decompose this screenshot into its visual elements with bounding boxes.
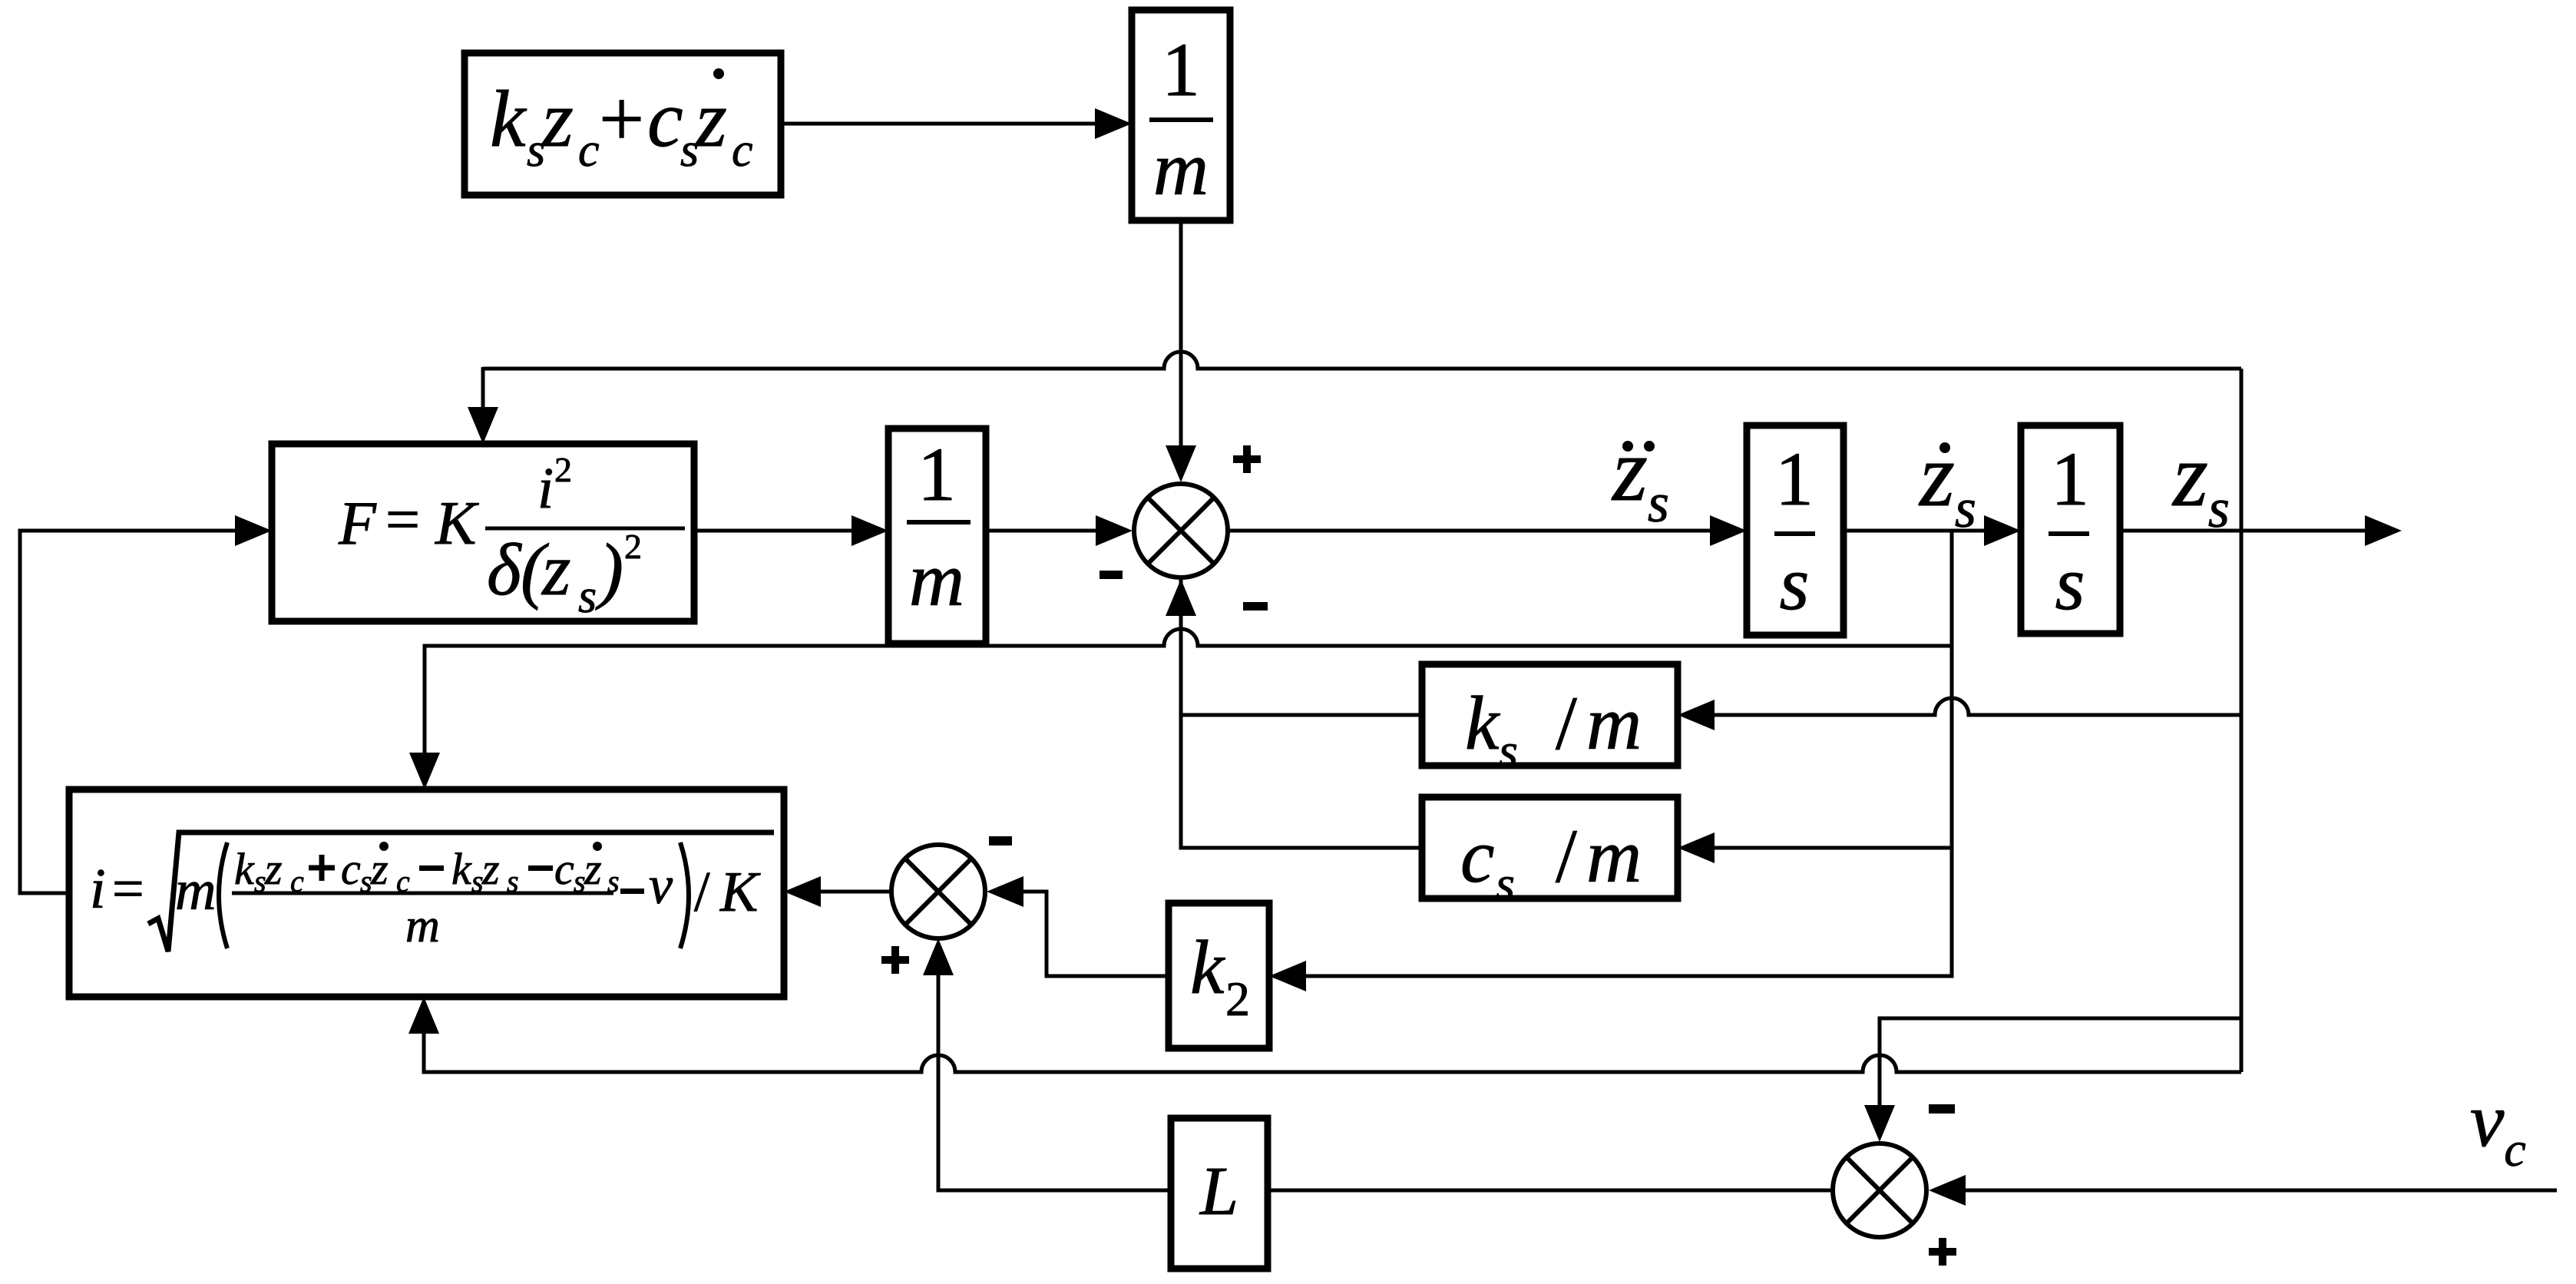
svg-text:s: s [1780, 541, 1810, 626]
wire: L output left then up into J2 bottom [923, 938, 1171, 1190]
svg-text:k: k [234, 844, 255, 894]
svg-text:=: = [112, 858, 144, 921]
wire: cs/m feed from zdot_s vertical [1678, 832, 1952, 863]
svg-text:c: c [647, 74, 683, 164]
svg-text:1: 1 [1162, 27, 1200, 112]
svg-text:2: 2 [1225, 971, 1250, 1026]
wire: z_s vertical x=2919 from top feedback down to y=1396 [2240, 369, 2244, 1072]
svg-text:m: m [175, 859, 216, 922]
svg-text:z: z [541, 74, 574, 164]
wire: z_s output line with end arrow [2120, 515, 2402, 546]
svg-text:v: v [649, 856, 673, 915]
node label: z_s (position) [2171, 425, 2230, 539]
node: J1 minus right [1243, 602, 1268, 611]
wire: k2 output left, up, into J2 right [987, 876, 1169, 976]
block B5: 1/s (first integrator) [1747, 425, 1844, 635]
node: J1 plus sign [1233, 445, 1261, 473]
svg-text:z: z [694, 74, 727, 164]
wire: i feedback: sqrt box left edge up and into F box input [20, 515, 272, 893]
svg-text:L: L [1199, 1153, 1238, 1229]
svg-text:): ) [595, 528, 623, 611]
svg-text:c: c [1460, 813, 1494, 898]
wire: branch y=1326 from z_s vertical to x=2448 then down into J3 top [1864, 1018, 2241, 1142]
summing junction J3 [1833, 1143, 1926, 1237]
block B3: F = K i^2 / delta(z_s)^2 [272, 444, 694, 623]
svg-text:c: c [554, 844, 574, 894]
wire: zdot_s horizontal y=841 from x=553 to x=2542 (hop at 1538), down into sqrt box top [409, 629, 1952, 789]
svg-text:m: m [1586, 680, 1642, 766]
node: J2 plus bottom [881, 946, 909, 974]
svg-text:c: c [732, 124, 753, 177]
svg-text:s: s [578, 571, 597, 623]
svg-text:zs: zs [1918, 425, 1976, 539]
wire: 1/m block down to summing junction J1 top [1166, 220, 1196, 482]
svg-text:K: K [435, 490, 479, 558]
block B6: 1/s (second integrator) [2021, 425, 2120, 634]
svg-text:z: z [264, 844, 283, 894]
svg-text:z: z [541, 528, 570, 611]
svg-text:z: z [584, 844, 602, 894]
svg-text:1: 1 [1775, 436, 1814, 521]
svg-text:k: k [1190, 925, 1225, 1010]
wire: J2 output into sqrt box right edge [784, 876, 890, 907]
svg-text:1: 1 [2051, 436, 2089, 521]
svg-text:c: c [341, 844, 361, 894]
block B2: 1/m (top) [1132, 10, 1230, 220]
wire: 1/s B5 to 1/s B6 (tee at x=2542) [1844, 515, 2021, 546]
node label: zdot_s (velocity) [1918, 425, 1976, 539]
wire: J1 bottom vertical down to cs/m output row, corner to cs/m box left [1166, 579, 1422, 848]
svg-text:z: z [370, 844, 389, 894]
svg-text:/: / [1556, 680, 1577, 766]
block B8: cs/m gain [1422, 797, 1678, 911]
svg-text:s: s [1496, 856, 1515, 911]
block B10: k2 gain [1169, 903, 1269, 1048]
summing junction J1 [1134, 484, 1228, 577]
wire: zdot_s vertical from main line down, then left into k2 box [1269, 531, 1952, 991]
wire: top feedback line y=480 from x=629 to z_s vertical x=2919 (hop at 1538) [483, 352, 2241, 369]
wire: v_c input from right into J3 [1929, 1175, 2557, 1206]
node label: zddot_s (acceleration) [1611, 419, 1669, 534]
svg-text:K: K [719, 861, 761, 924]
wire: z_s feed to ks/m box (from x=2919, hop at 2542) [1678, 698, 2241, 730]
svg-text:zs: zs [2171, 425, 2230, 539]
wire: ks/m output to J1 bottom vertical [1181, 713, 1422, 717]
wire: 1/m block B4 to junction J1 left [986, 515, 1133, 546]
svg-text:/: / [694, 861, 710, 924]
node: J2 minus top [989, 836, 1012, 846]
svg-text:vc: vc [2470, 1077, 2526, 1176]
block B4: 1/m [888, 429, 986, 644]
svg-text:k: k [451, 844, 472, 894]
svg-text:s: s [1499, 723, 1518, 778]
svg-text:m: m [1153, 126, 1209, 211]
node label: v_c command input [2470, 1077, 2526, 1176]
svg-text:i: i [537, 456, 554, 521]
svg-text:1: 1 [918, 432, 956, 517]
svg-text:zs: zs [1611, 419, 1669, 534]
block B1: input k_s z_c + c_s zdot_c [465, 53, 781, 195]
summing junction J2 [891, 845, 985, 938]
wire: arrow down into F box top [468, 367, 498, 444]
svg-text:m: m [1586, 813, 1642, 898]
svg-text:F: F [338, 490, 377, 558]
svg-text:2: 2 [554, 450, 572, 489]
svg-text:2: 2 [624, 527, 642, 566]
svg-text:k: k [490, 74, 527, 164]
svg-text:=: = [385, 486, 420, 554]
svg-text:m: m [405, 900, 440, 952]
wire: bottom feed y=1396 from z_s vertical to x=552, up into sqrt box bottom (hops at 2448 and 1222) [408, 997, 2241, 1072]
svg-text:c: c [578, 124, 600, 177]
node: J3 minus top [1929, 1104, 1955, 1114]
svg-text:s: s [2055, 541, 2085, 626]
svg-text:i: i [90, 858, 106, 921]
svg-text:+: + [599, 74, 644, 164]
svg-text:k: k [1465, 680, 1500, 766]
svg-text:m: m [909, 537, 964, 622]
block B7: ks/m gain [1422, 664, 1678, 778]
block B11: L gain [1171, 1118, 1268, 1269]
wire: J3 output left to L box input [1268, 1189, 1830, 1193]
svg-text:z: z [481, 844, 500, 894]
block B9: i = sqrt(m((kszc+cszdc-kszs-cszds)/m - v)/K) [69, 789, 784, 997]
node: J1 minus left [1100, 571, 1123, 579]
svg-text:/: / [1556, 813, 1577, 898]
wire: F box output to 1/m block B4 [694, 515, 888, 546]
node: J3 plus bottom [1929, 1238, 1956, 1266]
svg-text:δ: δ [487, 528, 522, 611]
wire: J1 output to 1/s block B5 [1229, 515, 1747, 546]
wire: input box B1 to 1/m block [781, 108, 1132, 139]
